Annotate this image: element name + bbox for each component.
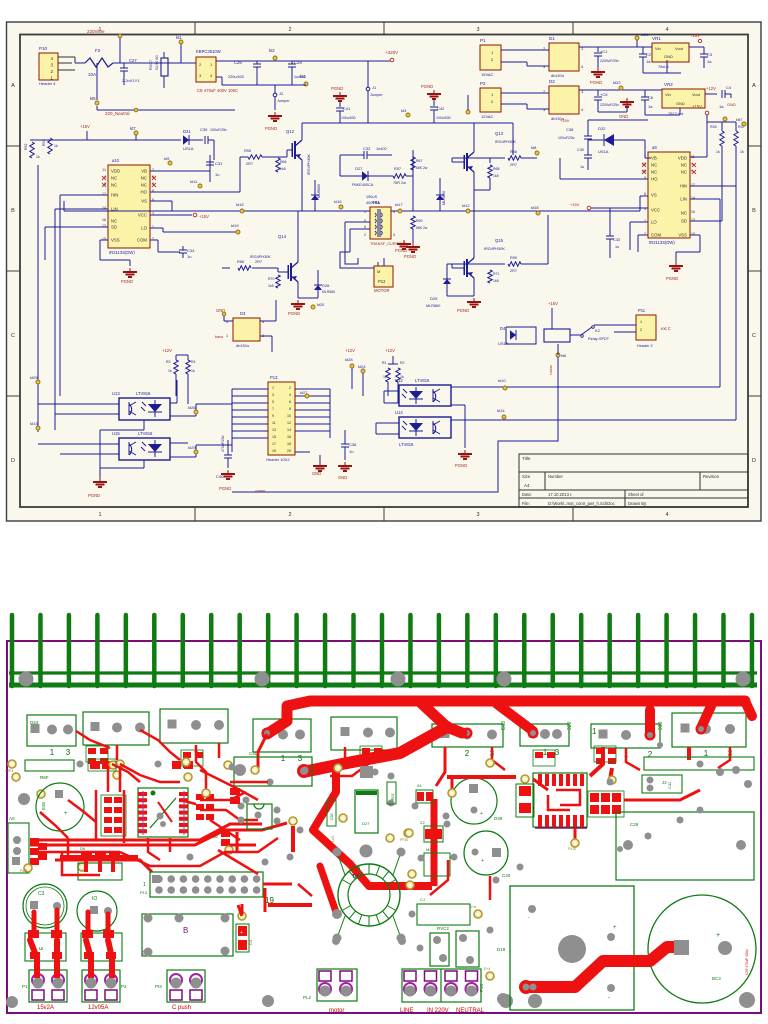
svg-text:kt11: kt11	[190, 179, 198, 184]
svg-text:db151s: db151s	[236, 343, 249, 348]
svg-text:F410: F410	[568, 847, 576, 851]
svg-text:R52: R52	[24, 144, 28, 150]
svg-text:MUR860: MUR860	[317, 184, 321, 198]
svg-text:GND: GND	[338, 475, 347, 480]
svg-text:6: 6	[644, 192, 646, 196]
svg-text:VSS: VSS	[678, 233, 687, 238]
svg-text:PGND: PGND	[590, 80, 602, 85]
svg-text:Vin: Vin	[655, 46, 661, 51]
svg-text:220Vline: 220Vline	[87, 29, 105, 34]
svg-text:8: 8	[289, 407, 291, 411]
svg-text:CE 470uF 400V 105C: CE 470uF 400V 105C	[197, 88, 238, 93]
svg-text:+12V: +12V	[345, 348, 355, 353]
svg-text:D3: D3	[240, 311, 246, 316]
svg-text:+12V: +12V	[162, 348, 172, 353]
svg-text:Header 4: Header 4	[39, 81, 56, 86]
svg-text:R51: R51	[42, 140, 46, 146]
svg-text:PGND: PGND	[457, 308, 469, 313]
svg-text:D6: D6	[80, 846, 86, 851]
svg-text:NC: NC	[681, 170, 687, 175]
svg-text:kt22: kt22	[613, 80, 621, 85]
svg-text:R57: R57	[394, 167, 401, 171]
svg-text:MUR860: MUR860	[442, 191, 446, 205]
svg-text:C38: C38	[566, 127, 574, 132]
svg-text:1: 1	[50, 748, 55, 757]
svg-text:kt26: kt26	[188, 405, 196, 410]
svg-text:1k: 1k	[383, 375, 387, 379]
svg-text:4: 4	[665, 27, 668, 33]
svg-text:12v05A: 12v05A	[88, 1005, 108, 1011]
svg-text:P2: P2	[480, 81, 486, 86]
svg-text:C2E: C2E	[330, 813, 334, 820]
svg-text:+: +	[240, 930, 243, 936]
svg-text:R68: R68	[493, 167, 499, 171]
svg-text:Drawn By:: Drawn By:	[628, 501, 647, 506]
svg-text:Vout: Vout	[675, 46, 684, 51]
svg-text:motor: motor	[329, 1008, 344, 1014]
svg-text:A0: A0	[9, 816, 15, 821]
svg-text:C30: C30	[577, 148, 584, 152]
svg-text:+C1: +C1	[600, 49, 608, 54]
svg-text:2R7: 2R7	[510, 269, 517, 273]
svg-text:kt1: kt1	[176, 35, 182, 40]
svg-text:D22: D22	[598, 126, 606, 131]
svg-text:9: 9	[272, 414, 274, 418]
svg-text:R59: R59	[510, 256, 517, 260]
svg-text:1a: 1a	[648, 104, 653, 109]
svg-text:11: 11	[691, 155, 695, 159]
svg-text:CJ: CJ	[420, 897, 425, 902]
svg-text:P11: P11	[638, 308, 646, 313]
svg-text:15v2A: 15v2A	[37, 1005, 54, 1011]
svg-text:PGND: PGND	[421, 84, 433, 89]
svg-text:+15V: +15V	[692, 104, 702, 109]
svg-text:P2: P2	[121, 984, 127, 989]
svg-text:+15V: +15V	[199, 214, 209, 219]
svg-text:-: -	[528, 915, 530, 921]
svg-text:1k: 1k	[740, 150, 744, 154]
svg-text:kt2: kt2	[269, 48, 275, 53]
svg-text:6: 6	[289, 400, 291, 404]
svg-text:kt19: kt19	[231, 223, 239, 228]
svg-text:PGND: PGND	[666, 276, 678, 281]
svg-text:R45: R45	[710, 125, 717, 129]
svg-text:IRG4PH30K: IRG4PH30K	[307, 154, 311, 175]
svg-text:kt15: kt15	[236, 202, 244, 207]
svg-text:R71: R71	[493, 272, 499, 276]
svg-text:GND: GND	[619, 114, 628, 119]
svg-text:4: 4	[289, 393, 291, 397]
svg-text:K2: K2	[595, 328, 601, 333]
svg-text:a9: a9	[652, 145, 657, 150]
svg-text:kt20: kt20	[317, 303, 324, 307]
svg-text:PGND: PGND	[265, 126, 277, 131]
svg-text:13: 13	[272, 428, 276, 432]
svg-text:Q15: Q15	[495, 238, 504, 243]
svg-text:kt6: kt6	[561, 354, 566, 358]
svg-text:3: 3	[555, 748, 560, 757]
svg-text:VDD: VDD	[111, 169, 120, 174]
svg-text:E: E	[39, 946, 45, 950]
svg-text:C push: C push	[172, 1005, 191, 1011]
svg-text:14: 14	[691, 196, 695, 200]
svg-text:ext C: ext C	[661, 326, 671, 331]
svg-text:+: +	[522, 795, 525, 801]
svg-text:NC: NC	[111, 176, 117, 181]
svg-text:1k: 1k	[716, 150, 720, 154]
svg-text:S14K 60: S14K 60	[155, 55, 159, 70]
svg-text:E+4: E+4	[484, 967, 490, 971]
svg-text:+: +	[716, 932, 720, 939]
svg-text:P12: P12	[378, 279, 386, 284]
svg-text:kt27: kt27	[300, 391, 307, 395]
svg-text:2200uF/25v: 2200uF/25v	[600, 103, 619, 107]
svg-text:14: 14	[287, 428, 291, 432]
svg-text:HIN: HIN	[111, 193, 118, 198]
svg-text:RVC2: RVC2	[437, 926, 449, 931]
svg-text:R1: R1	[382, 361, 387, 365]
svg-text:+320V: +320V	[385, 50, 398, 55]
svg-text:LTV816: LTV816	[138, 431, 153, 436]
svg-text:1a: 1a	[646, 59, 651, 64]
svg-text:MOTOR: MOTOR	[374, 288, 390, 293]
svg-text:13: 13	[691, 218, 695, 222]
svg-text:C31: C31	[215, 161, 223, 166]
svg-text:kt25: kt25	[30, 375, 38, 380]
svg-text:M2: M2	[426, 847, 432, 852]
svg-text:100u/630: 100u/630	[341, 116, 356, 120]
svg-text:B: B	[11, 208, 15, 214]
svg-text:D21: D21	[183, 129, 191, 134]
svg-text:+12V: +12V	[385, 348, 395, 353]
svg-text:11: 11	[102, 168, 106, 172]
svg-text:kt3: kt3	[401, 108, 407, 113]
svg-text:+15V: +15V	[80, 124, 90, 129]
svg-text:R70: R70	[268, 277, 274, 281]
svg-text:PGND: PGND	[455, 463, 467, 468]
svg-text:D: D	[11, 458, 15, 464]
svg-text:A: A	[11, 83, 15, 89]
svg-text:kt8: kt8	[531, 145, 537, 150]
svg-text:R56: R56	[510, 150, 517, 154]
svg-text:-: -	[608, 995, 610, 1001]
svg-text:F2: F2	[95, 48, 101, 53]
svg-text:R58: R58	[237, 260, 244, 264]
svg-text:VB: VB	[651, 156, 657, 161]
svg-text:Relay-SPDT: Relay-SPDT	[588, 337, 610, 341]
svg-text:C27: C27	[129, 58, 137, 63]
svg-text:A: A	[752, 83, 756, 89]
svg-text:1a: 1a	[707, 59, 712, 64]
svg-text:HO: HO	[141, 190, 148, 195]
svg-text:PGND: PGND	[331, 86, 343, 91]
svg-text:SD: SD	[681, 219, 687, 224]
svg-text:D24: D24	[30, 720, 39, 725]
svg-text:kt13: kt13	[30, 421, 38, 426]
svg-text:kt47: kt47	[736, 118, 743, 122]
svg-text:LO: LO	[651, 220, 657, 225]
svg-text:78xl.5: 78xl.5	[658, 64, 669, 69]
svg-text:+: +	[480, 811, 483, 817]
svg-text:2: 2	[288, 512, 291, 518]
svg-text:kt29: kt29	[188, 445, 196, 450]
svg-text:2: 2	[640, 328, 642, 332]
svg-text:US1A: US1A	[183, 146, 194, 151]
svg-text:910: 910	[658, 721, 664, 730]
svg-text:+: +	[481, 858, 484, 864]
svg-text:kt16: kt16	[334, 199, 342, 204]
svg-text:+15V: +15V	[690, 33, 700, 38]
svg-text:IO: IO	[92, 896, 97, 902]
svg-text:B: B	[752, 208, 756, 214]
svg-text:Header 2: Header 2	[637, 344, 653, 348]
svg-text:Jumper: Jumper	[277, 99, 290, 103]
svg-text:R2: R2	[400, 361, 405, 365]
svg-text:GND: GND	[664, 54, 673, 59]
svg-text:2R7: 2R7	[510, 163, 517, 167]
svg-text:C42: C42	[667, 781, 672, 789]
svg-text:D26: D26	[322, 283, 330, 288]
svg-text:PGND: PGND	[88, 493, 100, 498]
svg-text:11: 11	[272, 421, 276, 425]
svg-text:B: B	[183, 926, 188, 935]
svg-text:kt9: kt9	[164, 156, 170, 161]
svg-text:IRG4PH30K: IRG4PH30K	[484, 247, 505, 251]
svg-text:P10: P10	[479, 983, 484, 992]
svg-text:D27: D27	[362, 821, 370, 826]
svg-text:RVC7: RVC7	[149, 60, 153, 70]
svg-text:+: +	[64, 811, 68, 817]
svg-text:C3: C3	[707, 52, 713, 57]
svg-text:U14: U14	[395, 410, 403, 415]
svg-text:Number: Number	[548, 474, 563, 479]
svg-text:D2: D2	[549, 79, 555, 84]
svg-text:SD: SD	[111, 225, 117, 230]
svg-text:F43I: F43I	[20, 869, 27, 873]
svg-text:10A: 10A	[88, 72, 96, 77]
svg-text:C28: C28	[234, 60, 242, 65]
svg-text:kt10: kt10	[498, 378, 506, 383]
svg-text:R69: R69	[416, 219, 422, 223]
svg-text:US1A: US1A	[498, 341, 509, 346]
svg-text:R67: R67	[416, 159, 422, 163]
svg-text:LO: LO	[141, 226, 147, 231]
svg-text:kt18: kt18	[531, 205, 539, 210]
svg-text:D4: D4	[248, 939, 253, 945]
svg-text:SJF4: SJF4	[5, 769, 13, 773]
svg-text:C32: C32	[363, 146, 371, 151]
svg-text:MLR860: MLR860	[426, 304, 440, 308]
svg-text:C29: C29	[294, 60, 302, 65]
svg-text:Revision: Revision	[703, 474, 720, 479]
svg-text:kt4: kt4	[300, 74, 306, 79]
svg-text:kt5: kt5	[90, 96, 96, 101]
svg-text:Header 10X2: Header 10X2	[266, 457, 290, 462]
svg-text:IRG4PH30K: IRG4PH30K	[250, 255, 271, 259]
svg-text:Size: Size	[522, 474, 531, 479]
svg-text:1: 1	[272, 386, 274, 390]
svg-text:LIN: LIN	[680, 197, 687, 202]
svg-text:Sheet of: Sheet of	[628, 492, 644, 497]
svg-text:D4: D4	[500, 326, 506, 331]
svg-text:PI3: PI3	[155, 984, 162, 989]
svg-text:R3: R3	[166, 360, 171, 364]
svg-text:KBPC3510W: KBPC3510W	[196, 49, 221, 54]
svg-text:1: 1	[143, 882, 146, 888]
svg-text:db151s: db151s	[551, 73, 564, 78]
svg-text:P6KE400CA: P6KE400CA	[352, 183, 374, 187]
svg-text:MLR860: MLR860	[322, 290, 335, 294]
svg-text:1: 1	[226, 334, 228, 338]
svg-text:VDD: VDD	[678, 156, 687, 161]
svg-text:Vin: Vin	[665, 92, 671, 97]
svg-text:P10: P10	[39, 46, 48, 51]
svg-text:GND: GND	[727, 102, 736, 107]
svg-text:C39 470uF 450v: C39 470uF 450v	[745, 949, 749, 975]
svg-text:3: 3	[272, 393, 274, 397]
svg-text:400v 6A: 400v 6A	[366, 201, 380, 205]
svg-text:1n400: 1n400	[376, 147, 387, 151]
svg-text:16: 16	[691, 210, 695, 214]
svg-text:VB: VB	[141, 169, 147, 174]
svg-text:E03: E03	[501, 721, 507, 730]
svg-text:18: 18	[287, 442, 291, 446]
svg-text:17: 17	[272, 442, 276, 446]
svg-text:5: 5	[272, 400, 274, 404]
svg-text:COM: COM	[651, 233, 661, 238]
svg-text:16: 16	[102, 218, 106, 222]
svg-text:kt28: kt28	[345, 357, 353, 362]
svg-text:C2: C2	[646, 52, 652, 57]
svg-text:1k: 1k	[191, 369, 195, 373]
svg-text:Q13: Q13	[495, 131, 504, 136]
svg-text:FF30: FF30	[400, 838, 408, 842]
svg-text:100u/630: 100u/630	[436, 116, 451, 120]
svg-text:A4: A4	[524, 483, 530, 488]
svg-text:1k5: 1k5	[493, 174, 499, 178]
svg-text:PGND: PGND	[219, 486, 231, 491]
svg-text:D1: D1	[549, 36, 555, 41]
svg-text:2: 2	[465, 749, 470, 758]
svg-text:GND: GND	[676, 101, 685, 106]
svg-text:3: 3	[476, 512, 479, 518]
svg-text:1: 1	[364, 210, 366, 214]
svg-text:PGND: PGND	[121, 279, 133, 284]
svg-text:File:: File:	[522, 501, 530, 506]
svg-text:17.10.2013 r.: 17.10.2013 r.	[548, 492, 572, 497]
svg-text:a10: a10	[112, 158, 120, 163]
svg-text:C34: C34	[187, 248, 195, 253]
svg-text:R4: R4	[191, 360, 196, 364]
svg-text:15VAC: 15VAC	[481, 72, 493, 77]
svg-text:LTV816: LTV816	[415, 378, 430, 383]
svg-text:2: 2	[364, 233, 366, 237]
svg-text:VSS: VSS	[111, 238, 120, 243]
svg-text:COM: COM	[137, 238, 147, 243]
svg-text:2: 2	[288, 27, 291, 33]
svg-text:3: 3	[393, 233, 395, 237]
svg-text:2200uF/25v: 2200uF/25v	[600, 59, 619, 63]
svg-text:20: 20	[287, 449, 291, 453]
svg-text:Q12: Q12	[286, 129, 295, 134]
svg-text:C39: C39	[200, 127, 208, 132]
svg-text:R55: R55	[244, 149, 251, 153]
svg-text:1+d: 1+d	[470, 905, 476, 909]
svg-text:kt17: kt17	[395, 202, 403, 207]
svg-text:NC: NC	[681, 163, 687, 168]
svg-text:U15: U15	[112, 431, 120, 436]
svg-text:Date:: Date:	[522, 492, 532, 497]
svg-text:1u: 1u	[615, 245, 619, 249]
svg-text:Q14: Q14	[278, 234, 287, 239]
svg-text:VCC: VCC	[138, 213, 147, 218]
svg-text:2R7: 2R7	[255, 260, 262, 264]
svg-text:+15V: +15V	[548, 301, 558, 306]
svg-text:kt24: kt24	[358, 364, 366, 369]
svg-text:P1: P1	[480, 38, 486, 43]
svg-text:4: 4	[393, 210, 395, 214]
svg-text:C41: C41	[343, 106, 351, 111]
svg-text:K2: K2	[140, 949, 145, 955]
svg-text:bans: bans	[215, 335, 223, 339]
svg-text:C36: C36	[349, 442, 357, 447]
svg-text:GND: GND	[312, 471, 321, 476]
svg-text:1k: 1k	[54, 144, 58, 148]
svg-text:BC3: BC3	[712, 976, 721, 981]
svg-text:IN 220V: IN 220V	[427, 1008, 449, 1014]
svg-text:M: M	[377, 269, 380, 274]
svg-text:Vout: Vout	[692, 92, 701, 97]
svg-text:IR2113S(DW): IR2113S(DW)	[649, 240, 675, 245]
svg-text:470uF/25v: 470uF/25v	[221, 435, 225, 452]
svg-text:1k5: 1k5	[493, 279, 499, 283]
svg-text:R02: R02	[391, 794, 395, 800]
svg-text:VS: VS	[141, 199, 147, 204]
svg-text:NC: NC	[651, 163, 657, 168]
svg-text:US1A: US1A	[598, 149, 609, 154]
svg-text:HIN: HIN	[680, 184, 687, 189]
svg-text:+C5: +C5	[600, 92, 608, 97]
svg-text:D38: D38	[494, 816, 503, 821]
svg-text:2R7: 2R7	[246, 162, 253, 166]
svg-text:U13: U13	[112, 391, 120, 396]
svg-text:+15V: +15V	[570, 202, 580, 207]
svg-text:NC: NC	[681, 211, 687, 216]
svg-text:1: 1	[98, 512, 101, 518]
svg-text:C3: C3	[38, 891, 45, 897]
svg-text:P13: P13	[140, 890, 148, 895]
svg-text:NC: NC	[651, 170, 657, 175]
svg-text:4: 4	[665, 512, 668, 518]
svg-text:220_Neutral: 220_Neutral	[105, 111, 130, 116]
svg-text:+12V: +12V	[706, 86, 716, 91]
svg-text:C: C	[11, 333, 15, 339]
svg-text:TR: TR	[352, 874, 359, 880]
svg-text:16: 16	[287, 435, 291, 439]
svg-text:C33: C33	[613, 238, 620, 242]
svg-text:kt12: kt12	[462, 203, 470, 208]
svg-text:1k: 1k	[36, 155, 40, 159]
svg-text:LTV816: LTV816	[136, 391, 151, 396]
svg-text:100uF/25v: 100uF/25v	[558, 136, 575, 140]
svg-text:12: 12	[287, 421, 291, 425]
svg-text:IRG4PH30K: IRG4PH30K	[495, 140, 516, 144]
svg-text:1u: 1u	[215, 172, 219, 177]
svg-text:C42: C42	[437, 106, 445, 111]
svg-text:C29: C29	[630, 822, 639, 827]
svg-text:LTV816: LTV816	[399, 442, 414, 447]
svg-text:15: 15	[272, 435, 276, 439]
